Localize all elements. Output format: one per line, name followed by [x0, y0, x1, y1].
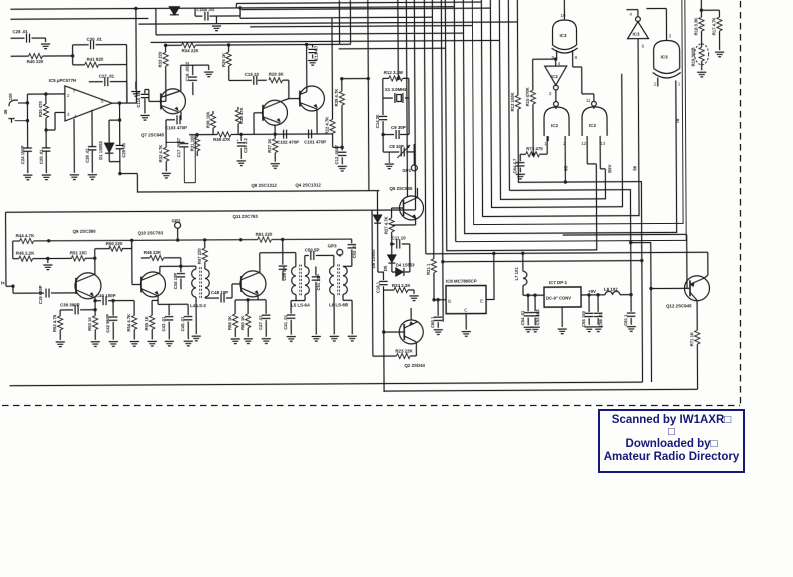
svg-text:C20 2.2: C20 2.2: [243, 138, 248, 153]
svg-text:C29 .01: C29 .01: [121, 142, 126, 157]
svg-text:C11 10: C11 10: [392, 235, 407, 240]
capacitor C44: [173, 266, 185, 289]
capacitor C40: [93, 293, 134, 305]
svg-text:C54 .01: C54 .01: [520, 310, 525, 325]
wire IC8 pin C to ground: [465, 314, 467, 330]
svg-text:D6 1S553: D6 1S553: [371, 249, 376, 268]
svg-text:R39 4.7K: R39 4.7K: [334, 89, 339, 107]
svg-text:C101 470P: C101 470P: [304, 139, 326, 144]
resistor R31: [190, 135, 200, 157]
ground under C47: [262, 339, 271, 344]
ground under C61: [627, 327, 636, 332]
svg-text:IC5 μPC577H: IC5 μPC577H: [49, 78, 76, 83]
svg-text:2: 2: [67, 93, 70, 98]
svg-text:E: E: [480, 299, 483, 304]
svg-text:C53 102: C53 102: [535, 309, 540, 326]
svg-text:R36 10K: R36 10K: [205, 112, 210, 129]
resistor R10: [525, 59, 536, 156]
resistor R35 + lower rail: [189, 131, 333, 142]
node MIC input jack: [8, 92, 30, 146]
ground under C43: [165, 341, 174, 346]
wire bus vertical x=408: [406, 0, 407, 197]
ground under L4: [192, 336, 201, 341]
inductor L7: [514, 253, 544, 295]
wire Q4 collector riser: [306, 45, 308, 88]
label Q10: [138, 230, 164, 235]
svg-text:+: +: [236, 138, 239, 143]
svg-text:R37 1K: R37 1K: [267, 139, 272, 153]
ground under R24: [409, 296, 418, 301]
svg-text:9B: 9B: [563, 166, 568, 171]
svg-text:R51 15C: R51 15C: [70, 250, 88, 255]
node RX input Ix: [1, 212, 15, 288]
thermistor R19: [691, 43, 709, 70]
capacitor C41: [283, 301, 305, 335]
net label 56: [632, 165, 637, 170]
wire op-amp input pin2: [27, 92, 65, 96]
capacitor C60: [430, 298, 442, 328]
node test point GP3: [328, 243, 343, 256]
resistor R29: [221, 45, 231, 81]
svg-text:R52 4.7K: R52 4.7K: [52, 314, 57, 332]
svg-text:C14 30: C14 30: [375, 114, 380, 128]
svg-text:C18 1: C18 1: [375, 281, 380, 293]
svg-text:R33 220: R33 220: [158, 51, 163, 68]
net label 9B: [563, 166, 568, 171]
op-amp IC5 uPC577H: [49, 78, 112, 121]
node test point GP1: [402, 152, 417, 173]
svg-text:13: 13: [600, 141, 606, 146]
svg-text:+: +: [307, 46, 310, 51]
resistor R18: [693, 0, 719, 43]
svg-text:C55 100: C55 100: [581, 310, 586, 327]
transistor Q11 2SC763: [240, 253, 296, 300]
svg-text:4: 4: [558, 61, 561, 66]
capacitor C42: [105, 301, 117, 340]
svg-text:10: 10: [560, 13, 566, 18]
wire bus horizontal y=48.5: [339, 47, 446, 50]
wire bus vertical x=399.5: [397, 0, 399, 78]
wire staircase path P8: [445, 0, 596, 251]
svg-text:B: B: [448, 299, 451, 304]
svg-text:R50 220: R50 220: [106, 241, 123, 246]
wire IC8 output riser: [486, 253, 494, 299]
ground under C25: [42, 175, 51, 180]
svg-text:R47 220: R47 220: [197, 248, 202, 265]
wire staircase path P2: [499, 0, 605, 199]
resistor R52: [52, 310, 63, 340]
wire Q10 collector node: [160, 266, 196, 273]
svg-text:R41 820: R41 820: [87, 57, 104, 62]
crystal X1 3.0MHz: [383, 78, 409, 103]
wire bus vertical x=352: [349, 0, 351, 44]
svg-text:R61 220: R61 220: [256, 232, 273, 237]
capacitor C39: [60, 302, 97, 314]
ground under R59: [231, 339, 240, 344]
capacitor C49: [279, 239, 288, 280]
capacitor C50: [305, 247, 334, 260]
svg-text:Q4 2SC1312: Q4 2SC1312: [295, 182, 321, 187]
svg-text:C48 10P: C48 10P: [211, 290, 228, 295]
capacitor C12: [334, 144, 346, 164]
capacitor C16: [181, 61, 209, 95]
gate IC2c (NAND, pointing up): [573, 67, 608, 169]
svg-text:C60 1: C60 1: [430, 316, 435, 328]
wire IC7 bottom pin: [561, 307, 563, 327]
svg-text:R54 4.7K: R54 4.7K: [126, 314, 131, 332]
svg-text:C52 .01: C52 .01: [352, 243, 357, 258]
resistor R27: [384, 208, 395, 240]
svg-text:R45 2.2K: R45 2.2K: [16, 251, 35, 256]
diode D2 (top rail): [169, 7, 179, 15]
svg-text:R24 2.2K: R24 2.2K: [392, 283, 411, 288]
capacitor C29: [116, 142, 138, 175]
svg-text:B9V: B9V: [607, 164, 612, 172]
ground under R54: [130, 342, 139, 347]
wire bus horizontal y=17.4: [240, 7, 432, 19]
svg-text:C49 8P: C49 8P: [282, 266, 287, 280]
resistor R71: [689, 309, 700, 389]
svg-text:IC2: IC2: [551, 123, 559, 128]
wire staircase path P5: [472, 0, 683, 225]
svg-text:C110 10: C110 10: [136, 91, 141, 107]
svg-text:Q12 2SC945: Q12 2SC945: [666, 303, 692, 308]
inductor L8: [604, 287, 633, 297]
transformer L5 LS-6A: [291, 253, 311, 308]
svg-text:R73 470: R73 470: [526, 146, 543, 151]
ground under C51: [312, 336, 321, 341]
resistor R22: [324, 18, 344, 149]
svg-text:IC2: IC2: [589, 123, 597, 128]
svg-text:100: 100: [8, 93, 13, 101]
ground under C45: [184, 341, 193, 346]
resistor R60: [240, 298, 251, 337]
ground under L6 secondary: [348, 336, 357, 341]
capacitor C103: [165, 112, 187, 148]
capacitor C17: [166, 137, 188, 159]
capacitor C43: [158, 300, 188, 339]
inverter IC4 (pointing up): [626, 10, 648, 49]
diode D6 1S553: [370, 191, 383, 273]
svg-text:46: 46: [3, 109, 8, 114]
ground under C56: [594, 327, 603, 332]
capacitor C61: [623, 297, 635, 326]
capacitor C18 (elco): [375, 272, 388, 392]
svg-text:D1 1S553: D1 1S553: [98, 140, 103, 159]
transistor Q10 2SC763: [132, 240, 166, 297]
svg-text:C43 .01: C43 .01: [161, 316, 166, 331]
resistor R17: [711, 10, 722, 50]
svg-text:C44 10P: C44 10P: [173, 273, 178, 290]
ground under IC7: [558, 329, 567, 334]
ground under C41: [287, 337, 296, 342]
node jack sleeve: [3, 109, 28, 123]
wire long rail y=210: [6, 210, 416, 212]
svg-text:C15 10: C15 10: [245, 72, 260, 77]
resistor R37: [267, 134, 278, 162]
svg-text:C40 100P: C40 100P: [96, 293, 116, 298]
ground stub on R45 rail: [43, 257, 52, 270]
svg-text:GP1: GP1: [402, 168, 411, 173]
wire bus vertical x=456: [454, 0, 455, 242]
ground right of C16: [204, 65, 213, 77]
label Q9: [73, 229, 97, 234]
svg-text:C61 1: C61 1: [623, 314, 628, 326]
svg-text:R18 3.3K: R18 3.3K: [693, 18, 698, 36]
capacitor C11: [390, 235, 410, 272]
svg-text:IC3: IC3: [560, 33, 568, 38]
capacitor C48: [205, 284, 241, 303]
resistor R34: [164, 42, 351, 54]
resistor R41: [73, 56, 127, 68]
svg-text:3: 3: [67, 112, 70, 117]
svg-text:R13 100K: R13 100K: [510, 92, 515, 111]
svg-text:R55 1K: R55 1K: [144, 316, 149, 330]
resistor R39: [334, 79, 369, 148]
svg-text:R60 1K: R60 1K: [240, 316, 245, 330]
node test point GP2: [172, 218, 181, 240]
svg-text:11: 11: [586, 98, 591, 103]
wire branch to L8 node x=631: [630, 243, 632, 297]
resistor R38: [235, 107, 244, 135]
diode D4 1S553: [392, 262, 415, 276]
svg-text:L5 LS-6A: L5 LS-6A: [291, 303, 311, 308]
border: dashed page frame bottom edge: [2, 405, 740, 407]
capacitor C102: [275, 125, 299, 145]
svg-text:R17 4.7K: R17 4.7K: [711, 17, 716, 35]
svg-text:R59 1K: R59 1K: [227, 316, 232, 330]
wire top rail A (y=7): [10, 5, 455, 104]
ground under C53: [531, 327, 540, 332]
ground under C54: [524, 327, 533, 332]
label Q11: [233, 214, 259, 219]
svg-text:C51 10P: C51 10P: [316, 274, 321, 291]
svg-text:IC3: IC3: [661, 54, 669, 59]
resistor R32: [158, 145, 169, 172]
resistor R50: [95, 240, 132, 258]
resistor R36: [205, 111, 215, 135]
capacitor C14: [375, 98, 387, 136]
svg-text:C17 .0047: C17 .0047: [176, 137, 181, 157]
resistor R44: [16, 233, 35, 244]
svg-text:C28 .01: C28 .01: [12, 29, 28, 34]
gate IC3b (NOR, pointing down): [646, 8, 680, 86]
capacitor C47: [258, 300, 270, 337]
ground right of C27: [131, 81, 140, 96]
capacitor C20 (elco): [236, 134, 248, 159]
resistor R21: [424, 0, 436, 300]
svg-text:3: 3: [669, 33, 672, 38]
svg-text:C27 .01: C27 .01: [99, 74, 115, 79]
ground under R53: [91, 342, 100, 347]
wire staircase path P4: [481, 0, 639, 217]
svg-text:C47 .01: C47 .01: [258, 314, 263, 329]
resistor R53: [87, 310, 98, 340]
ground under C64: [516, 174, 525, 179]
svg-text:D5: D5: [383, 265, 388, 271]
svg-text:Q8 2SC1312: Q8 2SC1312: [251, 183, 277, 188]
svg-text:IC3: IC3: [633, 32, 641, 37]
wire bus vertical x=369.5: [366, 0, 370, 191]
svg-text:C64 4.7: C64 4.7: [512, 158, 517, 173]
svg-text:R71 1K: R71 1K: [689, 332, 694, 346]
capacitor C30: [73, 37, 127, 56]
svg-text:+9V: +9V: [588, 289, 596, 294]
svg-text:R44 4.7K: R44 4.7K: [16, 233, 35, 238]
svg-text:D4 1S553: D4 1S553: [396, 262, 415, 267]
transistor Q12 2SC945: [666, 275, 710, 309]
inverter IC2a (pointing down): [545, 59, 567, 101]
wire gate stub x=566: [563, 139, 567, 184]
wire staircase path P0: [517, 0, 642, 383]
ground under C28: [41, 44, 50, 49]
resistor R55: [144, 296, 158, 340]
wire: page content placeholder: [0, 0, 726, 394]
capacitor C27: [89, 45, 127, 104]
ground under IC8: [462, 332, 471, 337]
capacitor C52: [343, 239, 357, 266]
capacitor C104: [195, 7, 240, 24]
svg-text:L8 102: L8 102: [604, 287, 618, 292]
svg-text:R22 4.7K: R22 4.7K: [325, 117, 330, 135]
diode D1 1S553: [98, 120, 120, 162]
capacitor C55 (elco): [581, 295, 593, 327]
ground under C110: [140, 115, 149, 120]
wire bus vertical x=426: [424, 0, 425, 254]
ground under C24: [23, 175, 32, 180]
svg-text:R46 22K: R46 22K: [144, 250, 162, 255]
resistor R47: [197, 240, 208, 269]
ground under R19: [697, 72, 706, 77]
svg-text:3: 3: [549, 91, 552, 96]
svg-text:2: 2: [654, 82, 657, 87]
wire op-amp input pin3: [46, 112, 65, 130]
wire bus horizontal y=8.6: [241, 8, 490, 9]
svg-text:R53 10: R53 10: [87, 317, 92, 331]
regulator IC8 MC7805CP: [446, 279, 486, 314]
svg-text:T6: T6: [675, 118, 680, 124]
gate IC2b (NAND, pointing up): [544, 102, 569, 147]
ground under C20: [237, 161, 246, 166]
svg-text:IC2: IC2: [551, 74, 559, 79]
ground under R55: [148, 341, 157, 346]
svg-text:X1 3.0MHz: X1 3.0MHz: [385, 87, 408, 92]
resistor R23: [372, 210, 416, 359]
net label B9V: [607, 164, 612, 172]
svg-text:Q5 2SC945: Q5 2SC945: [389, 186, 413, 191]
ground under R52: [56, 342, 65, 347]
svg-text:GP3: GP3: [328, 243, 337, 248]
svg-text:C8 10P: C8 10P: [389, 144, 404, 149]
ground under R60: [244, 339, 253, 344]
wire op-amp output: [112, 82, 137, 144]
capacitor C8 (trimmer): [383, 134, 414, 158]
svg-text:IC7 DP-1: IC7 DP-1: [549, 280, 568, 285]
wire bottom rail B2: [384, 389, 698, 391]
wire IC8 pin B: [432, 298, 446, 301]
capacitor C25: [39, 130, 51, 173]
capacitor C51: [312, 266, 322, 334]
svg-text:L7 101: L7 101: [514, 267, 519, 281]
svg-text:R35 47K: R35 47K: [213, 137, 231, 142]
svg-text:R12 3.3M: R12 3.3M: [384, 70, 403, 75]
wire bus vertical x=510: [508, 0, 509, 190]
resistor R20: [269, 72, 289, 99]
ground under R37: [271, 164, 280, 169]
resistor R12: [383, 70, 409, 81]
svg-text:C56 .01: C56 .01: [598, 311, 603, 326]
ground under C12: [338, 166, 347, 171]
wire gate feed y=60: [533, 57, 558, 61]
wire rail y=262: [441, 259, 643, 264]
svg-text:Q7 2SC945: Q7 2SC945: [141, 132, 165, 137]
svg-text:C104 .01: C104 .01: [196, 7, 214, 12]
svg-text:R31 100: R31 100: [190, 135, 195, 152]
resistor R13: [510, 92, 521, 111]
capacitor C19: [13, 285, 76, 304]
svg-text:C16 .0022: C16 .0022: [185, 61, 190, 81]
svg-text:IC8 MC7805CP: IC8 MC7805CP: [446, 279, 477, 284]
wire bus horizontal y=41: [151, 40, 500, 42]
svg-text:C50 5P: C50 5P: [305, 247, 320, 252]
wire top rail B (y=17): [10, 17, 148, 20]
svg-text:Ix: Ix: [1, 280, 5, 285]
transistor Q7 2SC945: [141, 89, 186, 138]
svg-text:DC-9″ CONV: DC-9″ CONV: [546, 296, 571, 301]
wire bus horizontal y=26: [250, 26, 472, 27]
resistor R54: [126, 301, 137, 340]
wire bottom rail B1: [10, 382, 643, 386]
wire bus vertical x=443: [441, 0, 443, 322]
ground under C104: [212, 26, 221, 31]
resistor R45: [13, 250, 72, 261]
svg-text:C26 .01: C26 .01: [85, 147, 90, 162]
resistor R24: [383, 283, 414, 294]
wire bus vertical x=416: [414, 0, 415, 210]
svg-text:R32 4.7K: R32 4.7K: [158, 145, 163, 163]
ground under pin4: [70, 175, 79, 180]
ground under C26: [88, 175, 97, 180]
transistor Q2 2SD44 (FET): [384, 308, 426, 368]
transistor Q9 2SC380: [75, 273, 101, 310]
svg-text:C42 560P: C42 560P: [105, 314, 110, 333]
svg-text:Q2 2SD44: Q2 2SD44: [404, 363, 425, 368]
resistor R33: [158, 45, 169, 101]
svg-text:C41 .01: C41 .01: [283, 314, 288, 329]
wire audio output line y=190.5: [137, 172, 379, 192]
capacitor C64 (elco): [512, 154, 524, 173]
svg-text:C45 .01: C45 .01: [180, 316, 185, 331]
svg-text:C: C: [464, 308, 468, 313]
transistor Q5 2SC945: [389, 186, 423, 225]
wire bus horizontal y=2.5: [236, 2, 481, 8]
transistor Q8 2SC1312: [251, 100, 288, 188]
wire IC7 output +9V: [581, 289, 605, 297]
wire bus horizontal y=22.6: [138, 22, 517, 24]
svg-text:56: 56: [632, 165, 637, 170]
wire bus horizontal y=33.5: [156, 7, 464, 35]
node supply rail y=254: [426, 251, 708, 277]
resistor R40: [11, 53, 75, 64]
svg-text:C25 .01: C25 .01: [39, 149, 44, 164]
capacitor C45: [180, 304, 192, 339]
svg-text:R40 220: R40 220: [27, 59, 44, 64]
border: dashed page frame right edge: [740, 1, 742, 404]
ground under C8: [385, 152, 394, 169]
ground under C13: [308, 60, 317, 65]
svg-text:R38 47K: R38 47K: [239, 107, 244, 124]
svg-text:C9 30P: C9 30P: [391, 125, 406, 130]
